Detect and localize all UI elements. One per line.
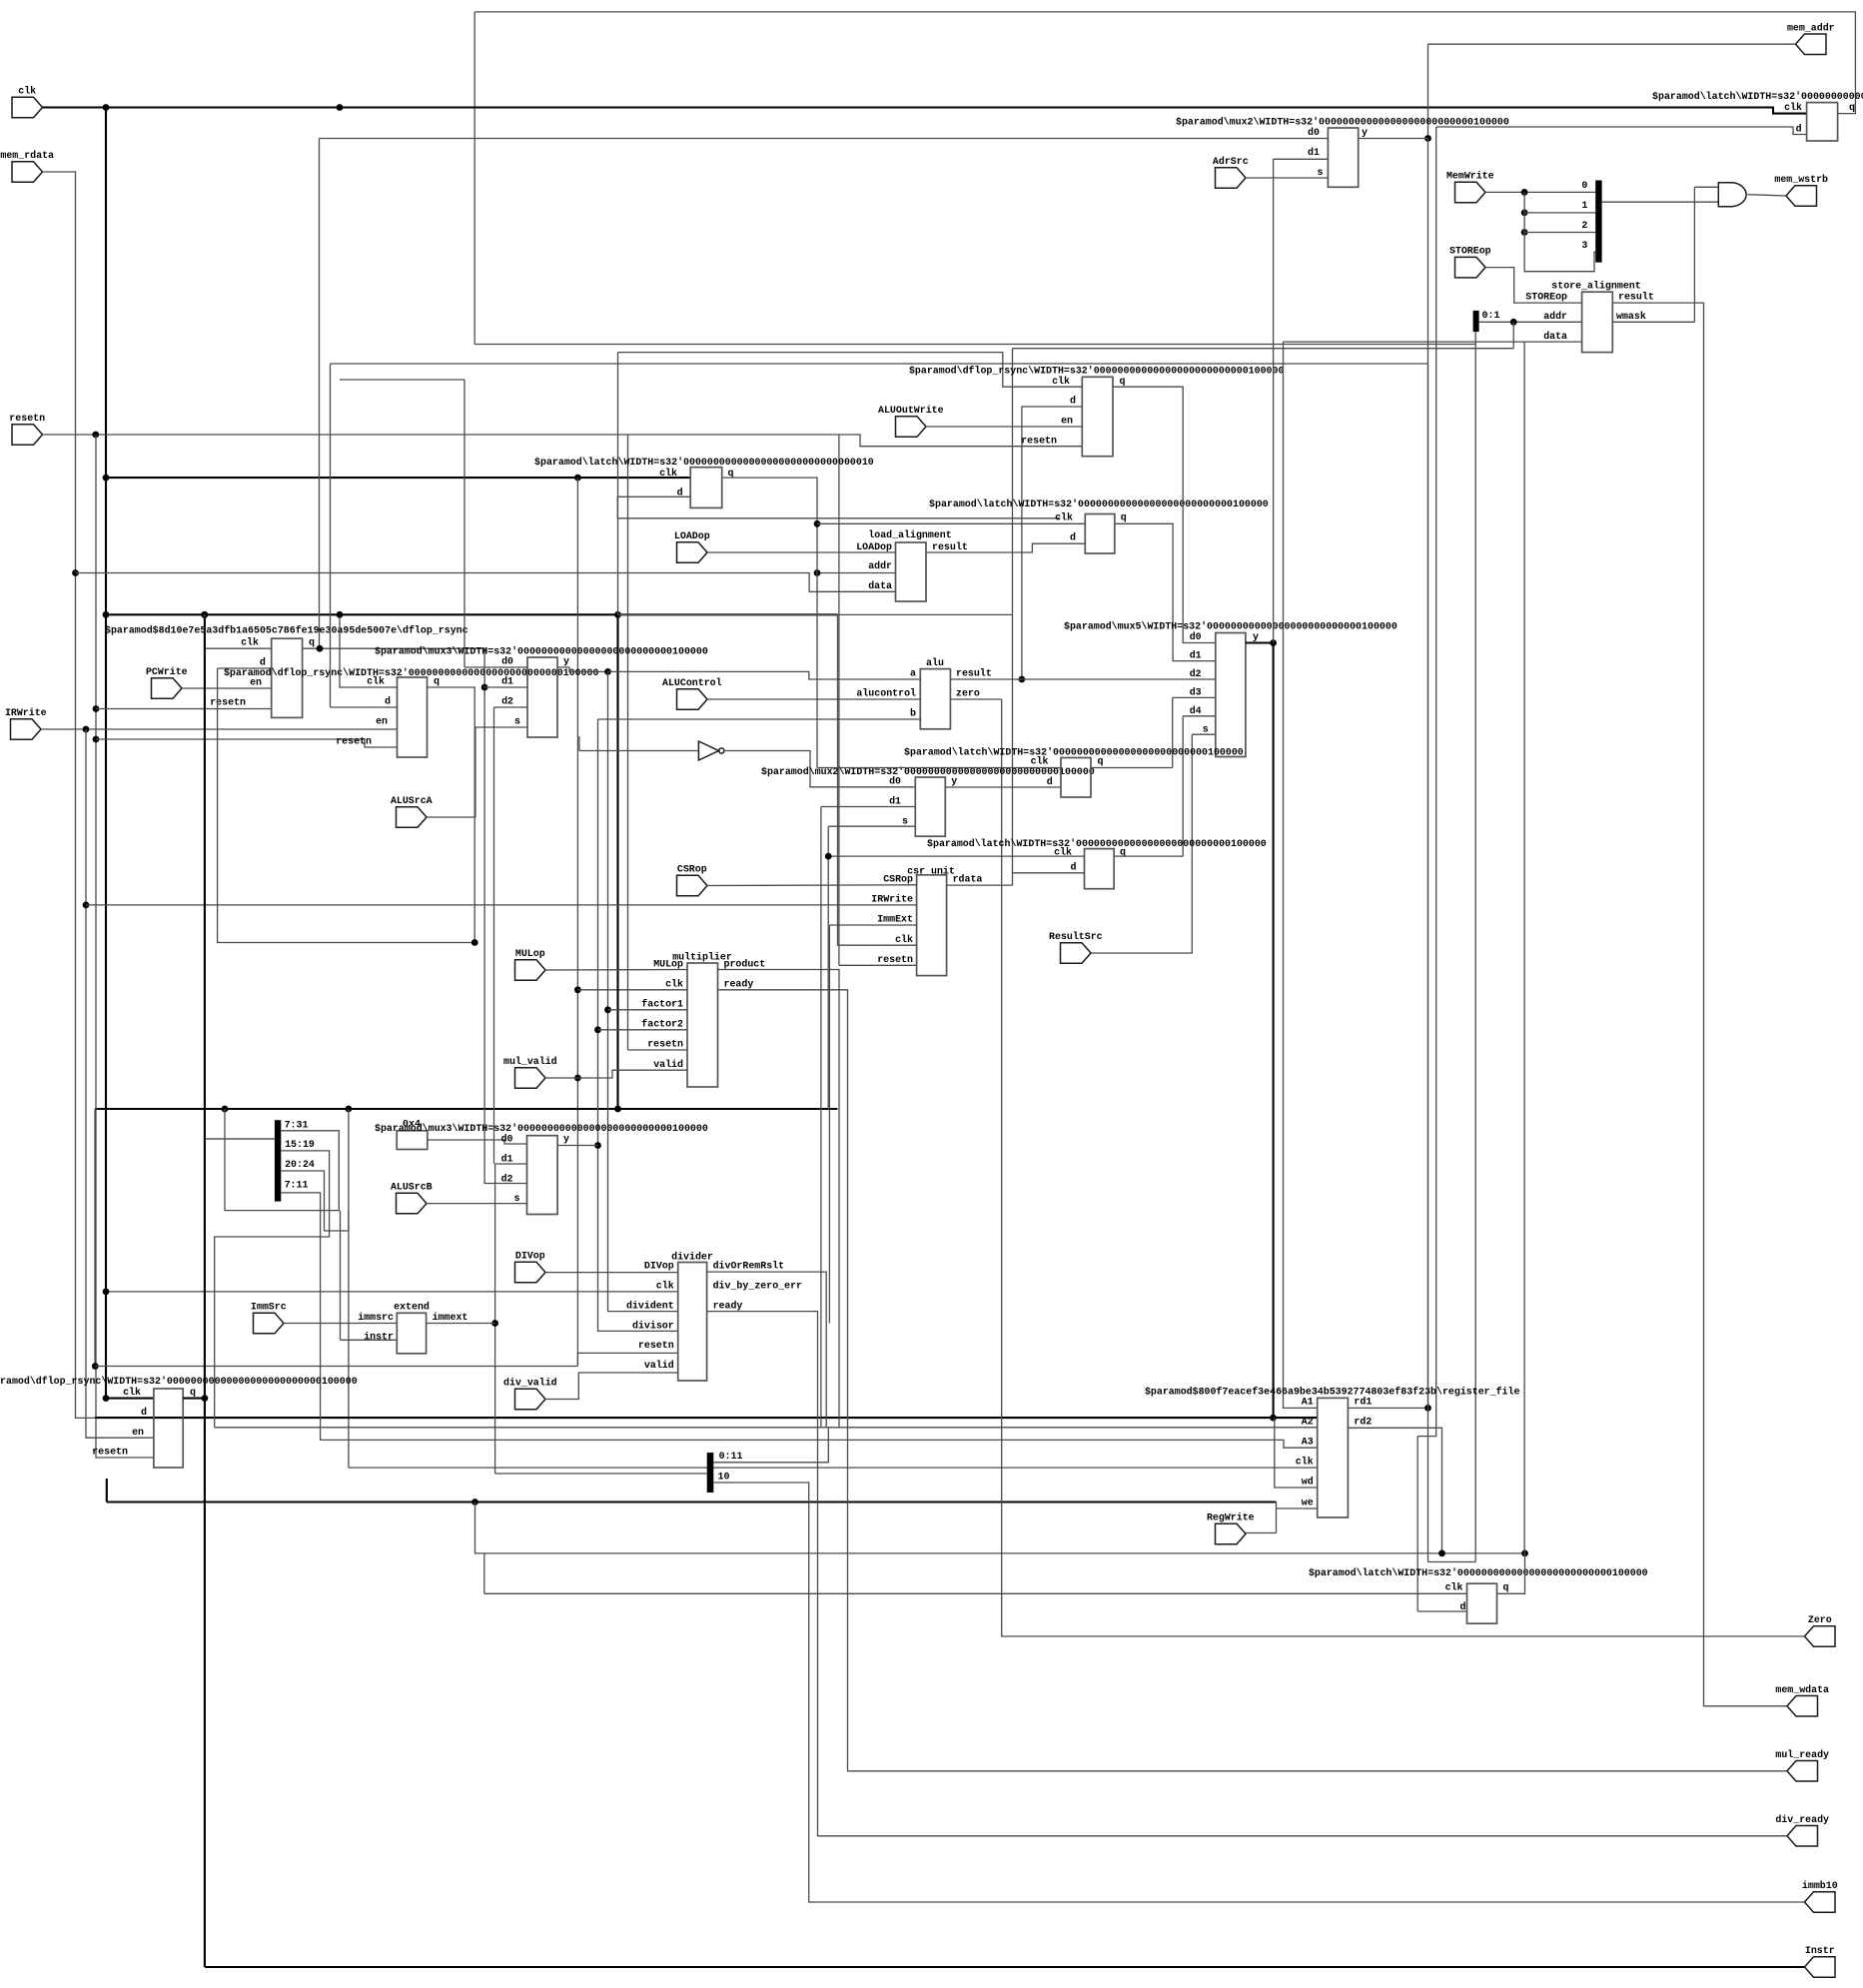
svg-text:divisor: divisor <box>632 1320 674 1331</box>
input port DIVop <box>515 1262 546 1283</box>
wire clk branch y617 <box>106 613 838 615</box>
svg-text:Instr: Instr <box>1805 1945 1835 1956</box>
svg-text:a: a <box>910 668 916 679</box>
svg-text:STOREop: STOREop <box>1525 292 1567 303</box>
svg-text:STOREop: STOREop <box>1449 246 1491 257</box>
input port MULop <box>515 960 546 980</box>
wire mul ready <box>718 990 1788 1771</box>
wire latchB clk <box>828 855 1084 857</box>
wire pc q to mux3 d1 row <box>484 686 526 688</box>
svg-text:en: en <box>250 677 262 688</box>
wire mux5 d3 <box>1173 696 1216 698</box>
wire not output <box>724 751 915 787</box>
svg-text:resetn: resetn <box>9 413 45 424</box>
wire resetn spur <box>95 1366 577 1368</box>
svg-text:wd: wd <box>1302 1477 1314 1488</box>
svg-text:clk: clk <box>123 1387 141 1398</box>
wire latchB q to mux5 d4 <box>1114 855 1183 857</box>
node clk junction <box>103 104 110 111</box>
wire slice out 15:19 <box>215 1151 330 1428</box>
svg-text:1: 1 <box>1581 200 1587 211</box>
svg-text:d: d <box>1070 532 1076 543</box>
svg-text:d: d <box>1070 396 1076 407</box>
svg-text:7:11: 7:11 <box>285 1179 309 1190</box>
wire resetn to csr <box>838 435 840 965</box>
wire ALUOutWrite to en <box>926 426 1082 428</box>
svg-text:PCWrite: PCWrite <box>146 666 188 677</box>
svg-text:b: b <box>910 708 916 719</box>
wire x1013 vertical <box>1012 349 1014 885</box>
wire mul_valid wire <box>545 1070 687 1078</box>
svg-text:load_alignment: load_alignment <box>868 529 951 540</box>
svg-text:y: y <box>951 776 957 787</box>
svg-text:s: s <box>514 1193 520 1204</box>
input port AdrSrc <box>1216 168 1247 188</box>
svg-text:CSRop: CSRop <box>677 864 707 875</box>
input port ALUOutWrite <box>896 417 927 437</box>
wire result to wd <box>1275 1418 1318 1488</box>
wire mem_rdata net <box>43 172 154 1418</box>
input port resetn <box>12 425 43 445</box>
svg-text:d1: d1 <box>889 796 901 807</box>
svg-text:divOrRemRslt: divOrRemRslt <box>713 1261 785 1272</box>
wire srcA mux d2 <box>494 706 528 708</box>
wire MemWrite fanout <box>1485 191 1595 193</box>
svg-text:A2: A2 <box>1302 1417 1314 1428</box>
svg-text:0: 0 <box>1581 180 1587 191</box>
svg-text:$paramod\latch\WIDTH=s32'00000: $paramod\latch\WIDTH=s32'000000000000000… <box>927 838 1267 849</box>
svg-text:MemWrite: MemWrite <box>1446 171 1494 182</box>
wire mem_addr net <box>1428 43 1796 45</box>
svg-text:$paramod\latch\WIDTH=s32'00000: $paramod\latch\WIDTH=s32'000000000000000… <box>1309 1567 1648 1578</box>
svg-text:rd1: rd1 <box>1354 1397 1372 1408</box>
svg-text:$paramod\mux3\WIDTH=s32'000000: $paramod\mux3\WIDTH=s32'0000000000000000… <box>375 646 708 657</box>
wire clk branch y478 <box>106 477 690 479</box>
not gate <box>698 741 718 760</box>
svg-text:resetn: resetn <box>92 1447 128 1458</box>
svg-text:result: result <box>932 541 968 552</box>
svg-text:15:19: 15:19 <box>285 1139 315 1150</box>
svg-text:resetn: resetn <box>1021 436 1057 447</box>
wire bar to and gate <box>1602 201 1719 203</box>
wire x1475 vertical <box>1474 332 1476 1561</box>
wire into 0:11 <box>495 1473 707 1475</box>
svg-text:IRWrite: IRWrite <box>871 894 913 905</box>
wire rdata out <box>947 884 1013 886</box>
wire result bus y1419 <box>95 1417 1318 1419</box>
svg-text:$paramod\mux5\WIDTH=s32'000000: $paramod\mux5\WIDTH=s32'0000000000000000… <box>1064 621 1397 632</box>
svg-text:LOADop: LOADop <box>674 530 710 541</box>
input port PCWrite <box>152 678 183 698</box>
svg-text:d2: d2 <box>501 696 513 707</box>
svg-text:s: s <box>1203 724 1209 735</box>
input port ImmSrc <box>254 1313 285 1334</box>
wire bottom latch d <box>1417 1610 1466 1612</box>
svg-text:ResultSrc: ResultSrc <box>1049 931 1103 942</box>
svg-text:ALUSrcA: ALUSrcA <box>391 795 433 806</box>
svg-text:div_ready: div_ready <box>1775 1814 1829 1825</box>
wire clk x618 <box>617 353 619 615</box>
svg-text:mem_wdata: mem_wdata <box>1775 1684 1829 1695</box>
svg-text:d1: d1 <box>1308 147 1320 158</box>
svg-text:resetn: resetn <box>336 736 372 747</box>
wire top border net (latch q) <box>474 12 1855 114</box>
svg-text:10: 10 <box>718 1472 730 1483</box>
svg-text:clk: clk <box>1445 1581 1463 1592</box>
svg-text:7:31: 7:31 <box>285 1119 309 1130</box>
svg-text:q: q <box>1849 102 1855 113</box>
input port IRWrite <box>11 719 42 739</box>
svg-text:divident: divident <box>626 1301 674 1312</box>
wire AdrSrc to s <box>1246 177 1328 179</box>
wire clk to csr <box>838 614 917 945</box>
input port STOREop <box>1455 257 1486 278</box>
wire mux2b s <box>828 825 915 827</box>
wire instr q <box>183 1398 205 1400</box>
svg-text:clk: clk <box>367 676 385 687</box>
wire MULop wire <box>545 969 687 972</box>
svg-text:ALUSrcB: ALUSrcB <box>391 1182 433 1193</box>
svg-text:store_alignment: store_alignment <box>1551 280 1640 291</box>
wire srcB d1 (ImmExt) <box>495 1163 527 1165</box>
wire mux5 y <box>1246 641 1274 643</box>
svg-text:20:24: 20:24 <box>285 1159 315 1170</box>
svg-text:en: en <box>376 716 388 727</box>
wire srcA y <box>557 667 608 671</box>
output port mem_wstrb <box>1786 186 1817 206</box>
wire latch q to mux5 d1 <box>1115 523 1216 660</box>
wire 0:11 out <box>713 1428 828 1463</box>
input port RegWrite <box>1216 1523 1247 1544</box>
wire slice out 7:11 <box>281 1193 1317 1448</box>
wire srcB y <box>557 1145 597 1147</box>
svg-text:y: y <box>563 656 569 667</box>
svg-text:IRWrite: IRWrite <box>5 707 47 718</box>
svg-text:result: result <box>956 668 992 679</box>
wire pc q <box>303 648 527 1183</box>
wire resetn to multiplier <box>628 1049 688 1051</box>
wire div_valid wire <box>545 1373 678 1400</box>
wire alu result <box>950 678 1215 680</box>
svg-text:ALUOutWrite: ALUOutWrite <box>878 405 944 416</box>
svg-text:0:11: 0:11 <box>719 1451 743 1462</box>
wire resetn main <box>43 435 1083 447</box>
svg-text:factor1: factor1 <box>641 999 683 1010</box>
svg-text:immb10: immb10 <box>1802 1880 1838 1891</box>
wire factor1 <box>608 1009 688 1011</box>
wire bottom latch q <box>1497 1553 1525 1593</box>
input port div_valid <box>515 1389 546 1410</box>
slice bar instr fields <box>275 1120 281 1201</box>
svg-text:extend: extend <box>394 1301 430 1312</box>
svg-text:d: d <box>141 1407 147 1418</box>
wire addr branch from left <box>1013 348 1514 350</box>
svg-text:div_valid: div_valid <box>503 1378 557 1389</box>
wire ImmExt into csr <box>829 924 916 926</box>
node clk junction 2 <box>337 104 344 111</box>
svg-text:y: y <box>563 1134 569 1145</box>
wire result to mem_wdata <box>1612 303 1787 1706</box>
input port MemWrite <box>1455 182 1486 203</box>
svg-text:d0: d0 <box>501 656 513 667</box>
svg-text:mul_valid: mul_valid <box>503 1056 557 1067</box>
svg-text:Zero: Zero <box>1808 1614 1832 1625</box>
wire LOADop wire <box>707 551 896 553</box>
svg-text:$paramod\dflop_rsync\WIDTH=s32: $paramod\dflop_rsync\WIDTH=s32'000000000… <box>0 1376 358 1387</box>
svg-text:y: y <box>1362 127 1368 138</box>
svg-text:zero: zero <box>956 688 980 699</box>
wire y1503 <box>107 1500 1277 1502</box>
wire mux5 d0 (ALUOut q) <box>1113 387 1216 642</box>
wire clk main <box>43 108 1807 114</box>
wire slice out 7:31 <box>225 1109 339 1211</box>
svg-text:en: en <box>132 1427 144 1438</box>
svg-text:q: q <box>434 676 440 687</box>
svg-text:q: q <box>309 637 315 648</box>
svg-text:d: d <box>1071 861 1077 872</box>
svg-text:A1: A1 <box>1302 1397 1314 1408</box>
svg-text:ImmExt: ImmExt <box>877 914 913 925</box>
wire mux2 y out <box>1359 138 1428 140</box>
svg-text:mul_ready: mul_ready <box>1775 1749 1829 1760</box>
wire and to mem_wstrb <box>1748 195 1787 196</box>
wire instr into extend <box>341 1339 398 1341</box>
svg-text:MULop: MULop <box>515 948 545 959</box>
wire divOrRemRslt <box>707 1272 827 1428</box>
svg-text:$paramod$800f7eacef3e466a9be34: $paramod$800f7eacef3e466a9be34b539277480… <box>1145 1387 1520 1398</box>
svg-text:0:1: 0:1 <box>1482 310 1500 321</box>
wire alucontrol wire <box>707 698 920 700</box>
svg-text:wmask: wmask <box>1616 311 1646 322</box>
wire resetn vertical <box>96 435 154 1458</box>
svg-text:mem_rdata: mem_rdata <box>0 150 54 161</box>
svg-text:d2: d2 <box>1190 668 1202 679</box>
wire Zero net <box>1002 699 1805 1636</box>
svg-text:product: product <box>724 959 766 970</box>
wire latch010 d <box>617 497 690 518</box>
svg-text:2: 2 <box>1581 220 1587 231</box>
output port mem_wdata <box>1787 1696 1818 1717</box>
svg-text:resetn: resetn <box>647 1039 683 1050</box>
wire latchA q to mux5 d3 <box>1091 767 1173 769</box>
wire latch d input <box>1436 127 1807 135</box>
wire STOREop to store_alignment <box>1485 268 1582 304</box>
svg-text:q: q <box>1503 1581 1509 1592</box>
svg-text:q: q <box>1098 756 1104 767</box>
slice bar 0:1 <box>1473 311 1479 332</box>
wire latch010 q <box>722 478 817 767</box>
svg-text:$paramod\latch\WIDTH=s32'00000: $paramod\latch\WIDTH=s32'000000000000000… <box>904 747 1244 758</box>
svg-text:clk: clk <box>1784 102 1802 113</box>
wire not input <box>579 750 699 752</box>
svg-text:immext: immext <box>433 1312 468 1323</box>
svg-text:alucontrol: alucontrol <box>856 688 916 699</box>
wire slice out 20:24 <box>281 1171 349 1231</box>
input port mem_rdata <box>12 162 43 182</box>
wire clk vertical left <box>105 108 107 1399</box>
wire factor2 <box>598 1029 688 1031</box>
output port immb10 <box>1805 1892 1836 1912</box>
wire mux5 d4 <box>1183 715 1216 717</box>
wire y1595 black <box>484 1592 1467 1594</box>
svg-text:addr: addr <box>868 560 892 571</box>
wire ir q <box>428 687 475 943</box>
svg-text:rdata: rdata <box>953 874 983 885</box>
wire ALUSrcA to s <box>427 727 527 817</box>
wire ALUSrcB to s <box>427 1203 527 1205</box>
wire b into alu <box>598 718 921 720</box>
svg-text:y: y <box>1253 631 1259 642</box>
wire clk to ir dflop <box>340 617 398 687</box>
wire data into store_alignment <box>1524 341 1582 343</box>
wire product <box>718 970 840 1428</box>
svg-text:en: en <box>1061 416 1073 427</box>
wire resetn to divider <box>577 1352 677 1354</box>
wire rd2 out <box>1348 1428 1441 1553</box>
svg-text:clk: clk <box>18 86 36 97</box>
svg-text:clk: clk <box>1296 1457 1314 1468</box>
svg-text:s: s <box>514 716 520 727</box>
wire slice input <box>205 1138 275 1140</box>
svg-text:resetn: resetn <box>210 697 246 708</box>
output port Instr <box>1805 1957 1836 1977</box>
svg-text:MULop: MULop <box>653 959 683 970</box>
svg-text:alu: alu <box>926 657 944 668</box>
wire latchA clk <box>817 767 1061 769</box>
svg-text:clk: clk <box>1031 756 1049 767</box>
svg-text:mem_wstrb: mem_wstrb <box>1774 174 1828 185</box>
svg-text:mem_addr: mem_addr <box>1787 22 1835 33</box>
wire mux2b y to latchA d <box>945 786 1061 788</box>
svg-text:s: s <box>902 816 908 827</box>
and gate mem_wstrb reduce <box>1718 183 1746 207</box>
svg-text:d3: d3 <box>1190 686 1202 697</box>
svg-text:d: d <box>260 657 266 668</box>
svg-text:3: 3 <box>1581 240 1587 251</box>
svg-text:clk: clk <box>241 637 259 648</box>
wire immext out <box>427 1323 495 1325</box>
svg-text:$paramod\mux3\WIDTH=s32'000000: $paramod\mux3\WIDTH=s32'0000000000000000… <box>375 1123 708 1134</box>
svg-text:DIVop: DIVop <box>515 1251 545 1262</box>
input port ALUSrcB <box>397 1193 428 1214</box>
svg-text:q: q <box>190 1387 196 1398</box>
wire load result to latch d <box>926 543 1085 552</box>
input port CSRop <box>677 875 708 896</box>
wire 0x4 to d0 <box>428 1140 527 1144</box>
svg-text:$paramod$8d10e7e5a3dfb1a6505c7: $paramod$8d10e7e5a3dfb1a6505c786fe19e30a… <box>105 625 468 636</box>
svg-text:d2: d2 <box>501 1174 513 1185</box>
wire DIVop wire <box>545 1272 678 1274</box>
wire ir d <box>331 706 398 708</box>
output port mul_ready <box>1787 1761 1818 1782</box>
svg-text:d0: d0 <box>1308 127 1320 138</box>
svg-text:RegWrite: RegWrite <box>1207 1512 1255 1523</box>
wire rd2 bus y1428 <box>215 1427 1318 1429</box>
svg-text:d0: d0 <box>501 1134 513 1145</box>
wire PCWrite to en <box>182 687 272 689</box>
wire x1284 to A1 <box>1284 342 1318 1408</box>
wire y1554 <box>475 1502 1525 1553</box>
svg-text:div_by_zero_err: div_by_zero_err <box>713 1281 802 1292</box>
svg-text:ImmSrc: ImmSrc <box>251 1302 287 1313</box>
input port ALUSrcA <box>397 807 428 827</box>
wire divider clk from clk trunk <box>106 1291 678 1293</box>
svg-text:d: d <box>1047 776 1053 787</box>
wire resetn to pc dflop <box>96 708 272 710</box>
svg-text:addr: addr <box>1543 311 1567 322</box>
svg-text:LOADop: LOADop <box>856 541 892 552</box>
svg-text:resetn: resetn <box>877 954 913 965</box>
svg-text:clk: clk <box>665 979 683 990</box>
wire rd1 out <box>1348 1407 1427 1409</box>
input port LOADop <box>677 542 708 562</box>
svg-text:q: q <box>1120 376 1126 387</box>
wire srcA mux d0 <box>465 666 527 668</box>
svg-text:$paramod\latch\WIDTH=s32'00000: $paramod\latch\WIDTH=s32'000000000000000… <box>1652 91 1863 102</box>
wire srcA down to divident <box>608 671 678 1311</box>
svg-text:ready: ready <box>724 979 754 990</box>
svg-text:CSRop: CSRop <box>883 874 913 885</box>
bus join bar 0123 <box>1595 181 1601 263</box>
wire clk bus y1110 <box>95 1108 838 1110</box>
wire instr bus up <box>205 1138 275 1140</box>
svg-text:we: we <box>1302 1497 1314 1508</box>
wire alu result to d <box>1022 407 1082 679</box>
svg-text:d1: d1 <box>501 1154 513 1165</box>
svg-text:ALUControl: ALUControl <box>662 677 722 688</box>
wire resetn to ir dflop <box>96 739 398 747</box>
svg-text:d1: d1 <box>1190 650 1202 661</box>
wire a into alu <box>608 671 921 679</box>
svg-text:$paramod\mux2\WIDTH=s32'000000: $paramod\mux2\WIDTH=s32'0000000000000000… <box>1176 117 1509 128</box>
svg-text:$paramod\latch\WIDTH=s32'00000: $paramod\latch\WIDTH=s32'000000000000000… <box>534 457 874 468</box>
svg-text:$paramod\dflop_rsync\WIDTH=s32: $paramod\dflop_rsync\WIDTH=s32'000000000… <box>909 366 1285 377</box>
svg-text:divider: divider <box>671 1251 713 1262</box>
output port Zero <box>1805 1626 1836 1646</box>
svg-text:d0: d0 <box>889 776 901 787</box>
wire wmask to and <box>1612 321 1694 323</box>
wire clk to pc dflop <box>205 614 272 648</box>
slice bar 0:11 <box>707 1453 714 1492</box>
wire clk to register file <box>348 1109 350 1468</box>
wire div ready <box>707 1312 1787 1836</box>
wire IRWrite net <box>41 728 398 730</box>
wire mux2b d1 <box>821 806 915 808</box>
input port ResultSrc <box>1061 943 1092 963</box>
wire srcB net down to divisor <box>598 719 678 1331</box>
svg-text:d0: d0 <box>1190 631 1202 642</box>
svg-text:result: result <box>1618 292 1654 303</box>
input port ALUControl <box>677 689 708 709</box>
svg-text:immsrc: immsrc <box>358 1312 394 1323</box>
wire Instr net <box>204 1399 206 1967</box>
wire 10 out to immb10 <box>713 1483 1804 1902</box>
svg-text:clk: clk <box>895 934 913 945</box>
input port mul_valid <box>515 1068 546 1088</box>
wire mux5 s <box>1192 733 1216 735</box>
svg-text:resetn: resetn <box>638 1340 674 1351</box>
svg-text:clk: clk <box>1055 512 1073 523</box>
output port mem_addr <box>1796 34 1827 55</box>
svg-text:d: d <box>385 696 391 707</box>
svg-text:clk: clk <box>659 468 677 479</box>
wire IRWrite to csr <box>86 904 917 906</box>
wire pc d <box>218 667 272 669</box>
svg-text:AdrSrc: AdrSrc <box>1213 156 1249 167</box>
svg-text:factor2: factor2 <box>641 1019 683 1030</box>
wire CSRop wire <box>707 884 917 887</box>
wire clk x578 down <box>576 478 578 1366</box>
